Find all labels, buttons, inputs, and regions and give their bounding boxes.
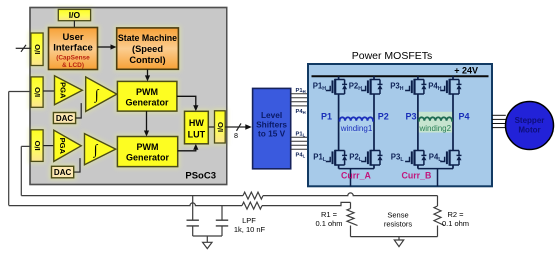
svg-text:User: User (62, 32, 83, 43)
svg-text:Generator: Generator (126, 153, 170, 163)
svg-text:(Speed: (Speed (132, 44, 163, 54)
svg-text:I/O: I/O (33, 140, 42, 150)
svg-text:I/O: I/O (69, 10, 81, 20)
svg-text:resistors: resistors (384, 219, 413, 228)
svg-text:Stepper: Stepper (515, 116, 545, 125)
svg-text:to 15 V: to 15 V (258, 128, 286, 138)
svg-text:Power MOSFETs: Power MOSFETs (352, 50, 433, 62)
svg-text:P1L: P1L (296, 131, 306, 137)
svg-text:Level: Level (261, 110, 282, 120)
svg-text:+ 24V: + 24V (454, 66, 478, 76)
svg-text:LUT: LUT (188, 130, 206, 140)
svg-text:0.1 ohm: 0.1 ohm (442, 219, 469, 228)
svg-text:DAC: DAC (56, 114, 74, 123)
svg-text:P3: P3 (406, 112, 417, 122)
svg-text:8: 8 (234, 131, 238, 140)
svg-text:Sense: Sense (387, 210, 408, 219)
svg-text:PGA: PGA (59, 82, 68, 99)
svg-text:P4H: P4H (296, 109, 306, 115)
svg-text:I/O: I/O (33, 44, 42, 54)
svg-text:Curr_A: Curr_A (341, 170, 371, 180)
svg-text:Motor: Motor (518, 126, 540, 135)
svg-text:I/O: I/O (33, 87, 42, 97)
svg-text:P4: P4 (459, 112, 470, 122)
svg-text:LPF: LPF (242, 216, 256, 225)
svg-text:1k, 10 nF: 1k, 10 nF (234, 225, 266, 234)
svg-text:R2 =: R2 = (447, 210, 464, 219)
svg-text:Generator: Generator (125, 98, 169, 108)
svg-text:PWM: PWM (137, 142, 159, 152)
svg-text:P4L: P4L (296, 153, 306, 159)
svg-text:Curr_B: Curr_B (402, 170, 432, 180)
svg-text:State Machine: State Machine (118, 33, 177, 43)
svg-text:I/O: I/O (216, 122, 225, 132)
svg-text:& LCD): & LCD) (62, 62, 84, 69)
svg-text:R1 =: R1 = (321, 210, 338, 219)
svg-text:PSoC3: PSoC3 (185, 171, 216, 182)
svg-text:winding2: winding2 (419, 124, 452, 133)
svg-text:DAC: DAC (54, 168, 72, 177)
svg-text:P1H: P1H (296, 88, 306, 94)
svg-text:PGA: PGA (58, 138, 67, 155)
svg-text:0.1 ohm: 0.1 ohm (315, 219, 342, 228)
svg-text:P1: P1 (321, 112, 332, 122)
svg-text:P2: P2 (378, 112, 389, 122)
svg-text:winding1: winding1 (340, 124, 373, 133)
svg-text:Control): Control) (129, 55, 165, 65)
svg-text:HW: HW (189, 118, 204, 128)
svg-text:PWM: PWM (136, 87, 158, 97)
svg-text:Interface: Interface (53, 43, 93, 54)
svg-text:(CapSense: (CapSense (56, 55, 90, 62)
